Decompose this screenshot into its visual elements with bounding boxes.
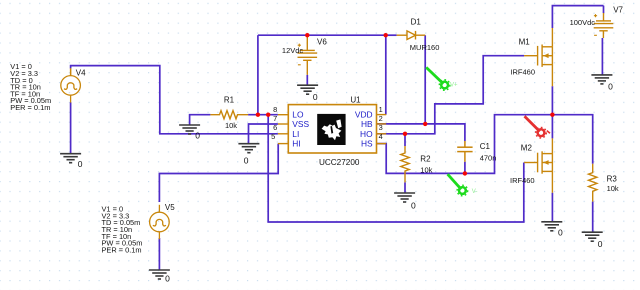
svg-text:10k: 10k <box>225 121 237 130</box>
wire lead M2 source <box>551 171 553 192</box>
svg-text:0: 0 <box>558 228 563 238</box>
svg-text:10k: 10k <box>420 166 432 175</box>
wire V7 minus to ground <box>601 38 603 75</box>
svg-text:0: 0 <box>195 131 200 141</box>
node junction rail V6 <box>305 33 309 37</box>
wire switch node to R3 <box>552 115 592 164</box>
op-amp U1 UCC27200 gate driver body <box>288 105 376 153</box>
wire lead V4 top <box>70 69 72 76</box>
svg-text:M2: M2 <box>521 143 533 152</box>
wire switch node to M2 drain <box>551 115 553 139</box>
wire lead M2 drain <box>551 138 553 153</box>
wire HO pin 3 to M1 gate <box>377 56 525 134</box>
node junction switch HS <box>550 113 554 117</box>
svg-text:V4: V4 <box>76 69 86 78</box>
wire HS pin 4 to switch node <box>377 115 553 174</box>
wire D1 cathode to HB pin 2 <box>424 35 426 124</box>
svg-text:V-: V- <box>472 189 478 195</box>
svg-text:V5: V5 <box>165 203 175 212</box>
wire lead M1 drain <box>551 28 553 47</box>
svg-text:0: 0 <box>411 200 416 210</box>
svg-text:D1: D1 <box>411 18 422 27</box>
svg-text:C1: C1 <box>480 142 491 151</box>
wire R2 bottom to ground <box>404 182 406 193</box>
svg-text:M1: M1 <box>519 37 531 46</box>
svg-text:10k: 10k <box>607 184 619 193</box>
wire R3 bottom to ground <box>592 202 594 233</box>
ground 0 under VSS <box>238 144 259 153</box>
svg-text:0: 0 <box>598 239 603 249</box>
pin 3 stub HO <box>377 133 387 135</box>
wire lead M1 source <box>551 65 553 87</box>
capacitor C1 470n <box>457 141 472 162</box>
pulse source V5 <box>150 205 170 239</box>
wire lead V6 top <box>306 35 308 50</box>
svg-text:V6: V6 <box>317 37 327 46</box>
svg-text:0: 0 <box>244 155 249 165</box>
svg-text:IRF460: IRF460 <box>510 68 535 77</box>
wire R1 right to LO pin 8 <box>248 114 278 116</box>
svg-text:470n: 470n <box>480 154 497 163</box>
ground 0 under V7 <box>591 75 612 84</box>
wire lead V6 bottom <box>306 60 308 75</box>
svg-text:0: 0 <box>313 92 318 102</box>
ground 0 under V4 <box>60 154 81 163</box>
svg-text:0: 0 <box>608 82 613 92</box>
svg-text:100Vdc: 100Vdc <box>570 18 596 27</box>
node junction LO rail <box>256 113 260 117</box>
ground 0 left of R1 <box>179 125 200 134</box>
current marker red probe <box>525 116 547 138</box>
wire V5 minus to ground <box>158 238 160 270</box>
voltage marker V+ green probe <box>426 67 450 90</box>
dc source V6 battery <box>298 44 318 65</box>
TI logo inside U1 <box>317 114 345 145</box>
node junction HB bootstrap <box>423 122 427 126</box>
wire LO node to M2 gate <box>268 115 524 222</box>
wire M1 drain to 100V rail <box>552 6 603 28</box>
wire M2 source to ground <box>551 193 553 222</box>
ground 0 under M2 <box>541 222 562 231</box>
wire 12V rail left drop <box>257 35 259 115</box>
ground 0 under R3 <box>582 232 603 241</box>
wire 12V rail <box>258 34 386 36</box>
ground 0 under R2 <box>394 193 415 202</box>
ground 0 under V5 <box>149 270 170 279</box>
wire HB pin 2 to C1 top <box>377 124 465 141</box>
pin 1 stub VDD <box>377 114 387 116</box>
svg-text:R2: R2 <box>420 154 431 163</box>
wire C1 bottom to HS net <box>464 162 466 174</box>
voltage marker V- green probe <box>448 174 468 196</box>
resistor R3 <box>589 164 597 202</box>
wire lead V7 bottom <box>602 31 604 38</box>
pin 8 stub LO <box>278 114 288 116</box>
dc source V7 battery <box>594 14 614 35</box>
wire V7 plus stub <box>603 6 605 13</box>
svg-text:MUR160: MUR160 <box>410 43 440 52</box>
svg-text:UCC27200: UCC27200 <box>319 158 360 167</box>
resistor R1 <box>210 111 248 119</box>
svg-text:0: 0 <box>165 274 170 284</box>
wire lead V7 top <box>603 13 605 21</box>
node junction HO R2 <box>403 132 407 136</box>
pin 4 stub HS <box>377 143 387 145</box>
wire V4 minus to ground <box>70 102 72 153</box>
resistor R2 <box>401 146 409 182</box>
pin 6 stub LI <box>278 133 288 135</box>
pin 7 stub VSS <box>278 123 288 125</box>
wire VSS pin 7 to ground <box>249 124 278 144</box>
node junction rail VDD D1 <box>384 33 388 37</box>
pulse source V4 <box>61 68 81 102</box>
wire V6 minus to ground <box>306 75 308 85</box>
svg-text:0: 0 <box>78 159 83 169</box>
wire ground to R1 left <box>190 115 211 125</box>
pin 5 stub HI <box>278 143 288 145</box>
node junction LO M2-gate <box>266 113 270 117</box>
node junction C1 HS-return <box>463 171 467 175</box>
transistor M1 IRF460 <box>524 45 552 67</box>
svg-text:R1: R1 <box>224 96 235 105</box>
wire HO node to R2 top <box>404 134 406 146</box>
svg-text:R3: R3 <box>607 174 618 183</box>
wire V5 plus to HI input (net to pin 5) <box>159 144 278 202</box>
svg-text:V7: V7 <box>613 6 623 15</box>
wire rail to VDD pin 1 <box>385 35 387 114</box>
pin 2 stub HB <box>377 123 387 125</box>
svg-text:IRF460: IRF460 <box>510 176 535 185</box>
transistor M2 IRF460 <box>524 151 552 173</box>
svg-text:V+: V+ <box>450 82 458 88</box>
wire V4 to LI input (net to pin 6) <box>71 66 278 134</box>
ground 0 under V6 <box>297 85 318 94</box>
wire M1 source to switch node <box>551 86 553 115</box>
wire D1 anode stub <box>386 34 397 36</box>
svg-text:12Vdc: 12Vdc <box>282 46 304 55</box>
svg-text:U1: U1 <box>350 95 361 104</box>
diode D1 MUR160 <box>397 31 426 40</box>
